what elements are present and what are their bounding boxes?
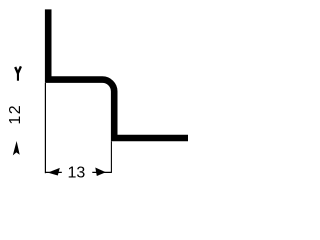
svg-text:12: 12 [7, 104, 24, 125]
svg-text:13: 13 [68, 164, 86, 181]
